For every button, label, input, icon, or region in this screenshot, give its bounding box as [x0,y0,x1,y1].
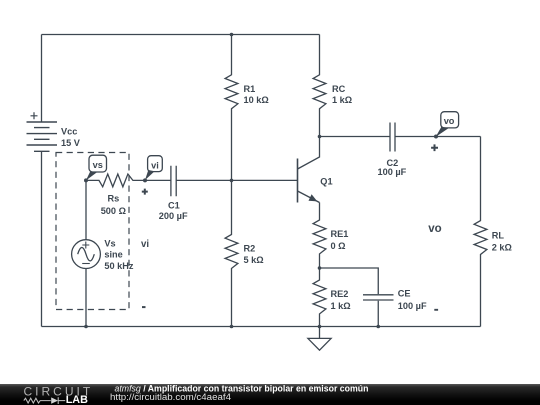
junction node base divider [230,179,234,183]
svg-text:sine: sine [104,250,122,260]
battery Vcc 15V [27,112,58,151]
source Vs sine 50kHz [72,180,101,326]
capacitor CE 100uF [320,268,394,327]
svg-text:vi: vi [141,239,149,250]
plus marker vo [431,144,438,151]
callout vo [436,112,459,137]
resistor R2 5k [225,180,238,326]
resistor RE1 0ohm [313,203,326,269]
svg-text:200 µF: 200 µF [159,211,188,221]
junction node collector [318,135,322,139]
callout vs [86,155,107,180]
svg-text:RE1: RE1 [331,229,349,239]
svg-text:500 Ω: 500 Ω [101,206,126,216]
svg-text:vo: vo [428,223,441,235]
svg-text:C1: C1 [168,200,180,210]
svg-text:LAB: LAB [66,394,88,405]
svg-text:100 µF: 100 µF [398,301,427,311]
junction node R2 bottom [230,325,234,329]
svg-text:R2: R2 [244,244,256,254]
minus marker vo [434,309,438,311]
node vo [434,135,438,139]
node vi [143,178,147,182]
svg-text:Rs: Rs [108,194,120,204]
wire C2 to vo corner [395,136,481,138]
junction node Vs bottom [84,325,88,329]
svg-text:15 V: 15 V [61,138,81,148]
wire battery minus down to bottom rail [41,151,43,326]
resistor R1 10k [225,35,238,181]
ground [308,327,331,351]
svg-text:Q1: Q1 [320,176,332,186]
wire bottom rail [42,326,481,328]
svg-text:RL: RL [492,231,505,241]
svg-text:Vcc: Vcc [61,127,77,137]
callout vi [145,156,162,180]
wire left vertical battery plus to top rail [41,35,43,123]
resistor Rs 500 [86,174,145,187]
svg-text:RC: RC [332,84,346,94]
svg-text:1 kΩ: 1 kΩ [331,301,351,311]
circuitlab logo [0,384,110,405]
wire base junction to Q1 base [232,179,298,181]
resistor RE2 1k [313,268,326,327]
svg-text:http://circuitlab.com/c4aeaf4: http://circuitlab.com/c4aeaf4 [110,392,231,402]
svg-text:5 kΩ: 5 kΩ [244,255,264,265]
svg-text:vi: vi [151,160,159,170]
svg-text:R1: R1 [244,84,256,94]
plus marker vi [142,189,148,195]
resistor RC 1k [313,35,326,137]
svg-text:vo: vo [444,116,455,126]
junction node ground [318,325,322,329]
resistor RL 2k [474,137,487,327]
svg-text:100 µF: 100 µF [378,167,407,177]
node vs [84,178,88,182]
junction node R1 top [230,33,234,37]
svg-text:2 kΩ: 2 kΩ [492,242,512,252]
svg-text:10 kΩ: 10 kΩ [244,95,269,105]
minus marker vi [142,306,146,308]
dashed source box [56,153,129,310]
svg-text:RE2: RE2 [331,289,349,299]
wire collector node to C2 [320,136,391,138]
wire C1 to base junction [176,179,231,181]
svg-text:50 kHz: 50 kHz [104,261,134,271]
transistor Q1 [298,137,320,203]
svg-text:0 Ω: 0 Ω [331,241,346,251]
capacitor C2 100uF [390,123,395,152]
svg-text:CE: CE [398,288,411,298]
footer bar [0,384,540,405]
junction node emitter RE1 RE2 CE [318,266,322,270]
junction node CE bottom [376,325,380,329]
svg-text:Vs: Vs [104,238,115,248]
capacitor C1 200uF [145,166,176,197]
svg-text:vs: vs [93,160,103,170]
svg-text:1 kΩ: 1 kΩ [332,95,352,105]
wire top rail [42,34,320,36]
